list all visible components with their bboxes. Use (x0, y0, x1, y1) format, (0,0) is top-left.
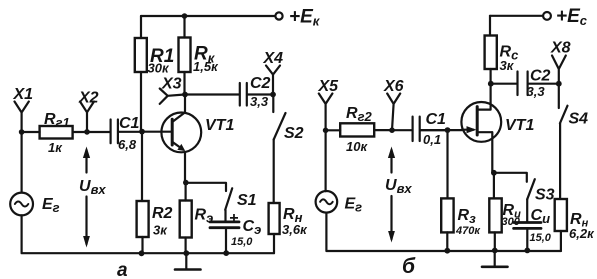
svg-text:C2: C2 (250, 75, 271, 92)
svg-text:б: б (402, 255, 416, 278)
svg-text:X2: X2 (78, 90, 99, 107)
svg-text:6,2к: 6,2к (569, 226, 595, 241)
svg-text:0,1: 0,1 (423, 132, 441, 147)
svg-text:3к: 3к (153, 223, 168, 238)
svg-text:300: 300 (502, 216, 521, 228)
svg-text:X6: X6 (383, 78, 404, 95)
svg-text:3к: 3к (500, 58, 515, 73)
svg-text:10к: 10к (346, 139, 368, 154)
svg-text:C1: C1 (426, 111, 447, 128)
svg-text:+: + (229, 210, 238, 227)
svg-text:1к: 1к (48, 140, 63, 155)
svg-text:X4: X4 (263, 50, 284, 67)
svg-text:VT1: VT1 (505, 117, 534, 134)
svg-text:15,0: 15,0 (530, 232, 552, 244)
svg-text:S4: S4 (569, 111, 589, 128)
svg-text:1,5к: 1,5к (193, 59, 219, 74)
svg-text:S2: S2 (284, 125, 304, 142)
svg-text:R2: R2 (152, 205, 173, 222)
svg-text:а: а (117, 260, 128, 279)
svg-text:X8: X8 (550, 40, 571, 57)
svg-text:X3: X3 (161, 76, 182, 93)
svg-text:C2: C2 (530, 68, 551, 85)
svg-text:VT1: VT1 (205, 117, 234, 134)
svg-text:30к: 30к (148, 61, 170, 76)
svg-text:3,6к: 3,6к (282, 222, 308, 237)
svg-text:X1: X1 (13, 86, 34, 103)
svg-text:15,0: 15,0 (231, 236, 253, 248)
svg-text:6,8: 6,8 (118, 137, 137, 152)
svg-text:S3: S3 (535, 187, 555, 204)
svg-text:C1: C1 (119, 115, 140, 132)
svg-text:3,3: 3,3 (250, 94, 269, 109)
svg-text:470к: 470к (455, 225, 481, 237)
svg-text:3,3: 3,3 (527, 84, 546, 99)
svg-text:X5: X5 (318, 78, 340, 95)
svg-text:S1: S1 (237, 192, 257, 209)
